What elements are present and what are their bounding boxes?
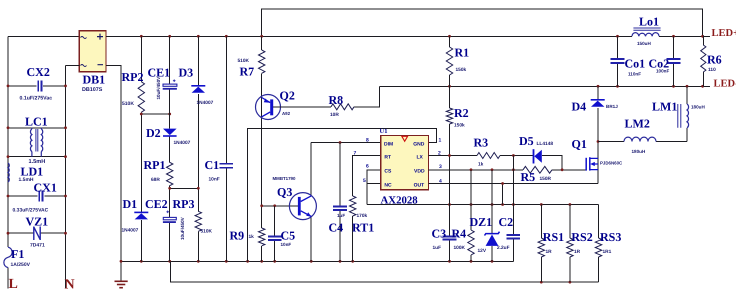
- wire Co2 column: [673, 36, 675, 86]
- resistor RP2: [138, 82, 144, 113]
- svg-text:RP1: RP1: [144, 158, 166, 172]
- wire DZ1 column: [491, 170, 493, 261]
- svg-text:1: 1: [439, 137, 442, 143]
- wire L line (live) from top rail down to L terminal: [7, 36, 9, 288]
- wire CX1 row: [8, 195, 66, 197]
- svg-text:1.5mH: 1.5mH: [19, 177, 34, 183]
- svg-text:Q3: Q3: [277, 185, 292, 199]
- resistor RS2: [567, 238, 573, 257]
- capacitor Co2: [667, 59, 681, 63]
- wire DB1 ac2 to N line: [66, 65, 80, 67]
- svg-text:180uH: 180uH: [691, 104, 705, 109]
- svg-text:180uH: 180uH: [632, 149, 646, 154]
- fuse F1: [4, 247, 12, 268]
- wire link RP2 to CE1 column y114: [141, 113, 169, 115]
- resistor R4: [468, 230, 474, 255]
- svg-text:10nF: 10nF: [209, 177, 220, 183]
- svg-text:170k: 170k: [357, 213, 368, 219]
- wire link RP1 bottom to RP3 column y188: [170, 187, 199, 189]
- junction dots on ground rail2: [540, 281, 571, 284]
- svg-text:R4: R4: [452, 227, 467, 241]
- ground symbol: [115, 281, 128, 287]
- diode D3: [191, 86, 205, 93]
- svg-text:BR1J: BR1J: [606, 104, 618, 109]
- wire ground rail2 y282 with jog: [170, 261, 598, 282]
- svg-text:D2: D2: [146, 126, 161, 140]
- U1 pin1 notch marker: [402, 136, 408, 141]
- wire VZ1 row: [8, 232, 66, 234]
- capacitor CE2 (electrolytic): [163, 211, 176, 223]
- svg-text:R8: R8: [329, 93, 344, 107]
- wire C1 column: [225, 36, 227, 261]
- resistor R9: [259, 228, 265, 246]
- svg-text:2.2uF: 2.2uF: [497, 245, 510, 251]
- svg-text:10R: 10R: [330, 112, 339, 118]
- svg-text:C4: C4: [329, 221, 344, 235]
- svg-text:110: 110: [708, 67, 716, 73]
- wire main DC+ rail y36: [106, 35, 710, 37]
- svg-text:RT1: RT1: [352, 221, 374, 235]
- svg-text:CX1: CX1: [34, 181, 57, 195]
- capacitor C5: [268, 236, 282, 240]
- svg-text:OUT: OUT: [414, 182, 425, 188]
- wire DIM row from Q3 collector: [311, 142, 380, 144]
- svg-text:RP3: RP3: [173, 197, 195, 211]
- diode D2: [163, 129, 177, 136]
- svg-text:1R: 1R: [574, 249, 581, 255]
- svg-text:8: 8: [366, 137, 369, 143]
- wire D3-RP3 column: [197, 36, 199, 261]
- junction dots on LX row: [448, 154, 515, 157]
- inductor LD1: [8, 163, 9, 182]
- wire Co1 column: [617, 36, 619, 86]
- svg-text:110nF: 110nF: [628, 71, 641, 76]
- svg-text:VDD: VDD: [414, 169, 425, 175]
- svg-text:D3: D3: [179, 66, 194, 80]
- wire CS/NC bracket to sense rail: [367, 170, 381, 205]
- resistor R7: [259, 50, 265, 73]
- svg-text:LM2: LM2: [625, 117, 650, 131]
- wire sense rail E y204.5: [367, 204, 599, 206]
- svg-text:510K: 510K: [122, 101, 134, 107]
- svg-text:12V: 12V: [478, 248, 487, 254]
- wire RP2-D1 column: [140, 36, 142, 261]
- wire top AC rail into DB1: [8, 35, 79, 37]
- svg-text:CS: CS: [384, 169, 392, 175]
- svg-text:1R1: 1R1: [603, 249, 612, 255]
- svg-text:Lo1: Lo1: [639, 15, 659, 29]
- wire LC1 bottom row: [8, 156, 66, 158]
- svg-text:DIM: DIM: [384, 141, 393, 147]
- svg-text:U1: U1: [380, 128, 388, 135]
- svg-text:RS1: RS1: [543, 230, 564, 244]
- wire D4-Q1 drain-source column: [597, 86, 599, 183]
- wire R7-Q2-R9 column: [261, 36, 263, 261]
- diode D1: [134, 212, 148, 219]
- capacitor CX1 symbol: [39, 190, 42, 201]
- wire VDD row with R5 to Q1 gate: [429, 169, 587, 171]
- svg-text:RP2: RP2: [122, 70, 144, 84]
- wire RS2 column: [569, 205, 571, 283]
- wire U1 GND loop over IC to ground rail: [248, 129, 437, 262]
- svg-text:D1: D1: [123, 197, 138, 211]
- wire RS1 column: [540, 205, 542, 283]
- resistor R5: [523, 166, 552, 173]
- svg-text:Q1: Q1: [572, 137, 587, 151]
- svg-text:10nF: 10nF: [281, 242, 292, 247]
- junction dot OUT jog: [501, 182, 504, 185]
- svg-text:R9: R9: [230, 229, 245, 243]
- svg-text:R3: R3: [474, 136, 489, 150]
- svg-text:LED-: LED-: [714, 78, 736, 89]
- transistor Q3 (NPN MMBT1790): [289, 193, 316, 220]
- wire R6 column: [702, 36, 704, 87]
- svg-text:7: 7: [354, 150, 357, 156]
- capacitor CX2 symbol: [38, 80, 41, 91]
- capacitor CE1 (electrolytic): [163, 79, 177, 88]
- svg-text:R7: R7: [240, 65, 255, 79]
- capacitor Co1: [611, 59, 625, 63]
- svg-text:150R: 150R: [540, 176, 552, 182]
- svg-text:3: 3: [439, 164, 442, 170]
- wire OUT row jog down to sense rail: [502, 184, 504, 205]
- svg-text:10uF/450V: 10uF/450V: [156, 76, 161, 100]
- transistor Q2 (PNP A92): [256, 95, 281, 120]
- resistor R8: [331, 104, 354, 110]
- svg-text:DB107S: DB107S: [82, 87, 103, 93]
- junction dots on LED- rail: [448, 85, 704, 88]
- wire C4 column: [339, 143, 341, 262]
- wire LX row with R3 and D5: [429, 156, 563, 170]
- svg-text:C5: C5: [281, 229, 296, 243]
- svg-text:150k: 150k: [456, 67, 467, 73]
- wire RT row and RT1 column: [353, 156, 381, 262]
- svg-text:1N4007: 1N4007: [174, 140, 191, 146]
- resistor RP1: [167, 162, 173, 185]
- svg-text:C3: C3: [432, 227, 447, 241]
- wire CX2 row: [8, 85, 66, 87]
- junction dots on VDD row: [470, 168, 564, 171]
- svg-text:R6: R6: [707, 53, 722, 67]
- resistor RP3: [195, 211, 201, 231]
- svg-text:1k: 1k: [478, 162, 484, 168]
- wire RS3 column: [598, 205, 600, 283]
- resistor R6: [701, 45, 706, 72]
- resistor RS1: [538, 238, 544, 257]
- U1 pin numbers: [354, 137, 443, 184]
- op-amp U1 AX2028 body: [381, 136, 429, 190]
- wire LC1 top row: [8, 127, 66, 129]
- svg-text:1uF: 1uF: [433, 245, 442, 251]
- svg-text:1A/250V: 1A/250V: [11, 262, 31, 268]
- svg-text:C1: C1: [205, 158, 220, 172]
- svg-text:DZ1: DZ1: [470, 215, 493, 229]
- DB1 ac/dc pin marks: [81, 34, 104, 67]
- svg-text:510K: 510K: [238, 58, 250, 64]
- wire top loop rail y9: [262, 9, 703, 36]
- svg-text:0.33uF/275VAC: 0.33uF/275VAC: [13, 207, 49, 213]
- inductor Lo1: [632, 28, 661, 36]
- svg-text:1N4007: 1N4007: [122, 228, 139, 234]
- inductor LM2: [624, 137, 656, 141]
- junction dots Q3 base row: [260, 204, 276, 207]
- svg-text:PJD6N60C: PJD6N60C: [600, 160, 623, 165]
- svg-text:1uF: 1uF: [337, 213, 345, 218]
- svg-text:68R: 68R: [151, 177, 160, 183]
- wire ground rail1 y261: [121, 260, 513, 262]
- svg-text:F1: F1: [11, 247, 24, 261]
- svg-text:100K: 100K: [454, 245, 466, 251]
- wire Q2 base to R8 to LED- rail: [273, 86, 380, 107]
- svg-text:LM1: LM1: [652, 100, 677, 114]
- junction dots on L/N ladder: [7, 85, 67, 235]
- svg-text:R5: R5: [521, 170, 536, 184]
- wire CE1-D2-RP1-CE2 column: [169, 36, 171, 261]
- resistor R1: [446, 47, 452, 75]
- svg-text:N: N: [65, 278, 75, 293]
- svg-text:510K: 510K: [201, 229, 213, 235]
- resistor R2: [446, 108, 452, 124]
- svg-text:VZ1: VZ1: [26, 214, 49, 228]
- capacitor C2: [507, 235, 521, 239]
- wire C5 column: [274, 206, 276, 261]
- svg-text:LX: LX: [417, 154, 424, 160]
- svg-text:R1: R1: [455, 46, 470, 60]
- svg-text:LC1: LC1: [25, 115, 48, 129]
- capacitor C3: [443, 236, 457, 239]
- svg-text:RS3: RS3: [600, 230, 621, 244]
- wire C2 column: [512, 156, 514, 262]
- zener diode DZ1 (12V): [485, 232, 500, 246]
- svg-text:7D471: 7D471: [30, 242, 45, 248]
- svg-text:NC: NC: [384, 182, 392, 188]
- wire LED- / mid rail y86: [380, 85, 710, 87]
- svg-text:RT: RT: [384, 154, 391, 160]
- svg-text:Q2: Q2: [280, 89, 295, 103]
- transistor Q1 (MOSFET PJD6N60C): [586, 157, 598, 170]
- capacitor C4: [333, 207, 347, 211]
- svg-text:L: L: [9, 277, 18, 292]
- inductor LC1 (common-mode choke): [30, 128, 42, 157]
- svg-text:DB1: DB1: [83, 73, 106, 87]
- wire LM1 column: [686, 86, 688, 141]
- wire Q3 collector/emitter column: [310, 143, 312, 262]
- svg-text:LED+: LED+: [712, 28, 736, 39]
- svg-text:150uH: 150uH: [637, 41, 651, 46]
- svg-text:CX2: CX2: [27, 65, 50, 79]
- svg-text:6: 6: [366, 164, 369, 170]
- resistor R3: [477, 153, 500, 159]
- junction dots on ground rail1: [120, 260, 494, 263]
- svg-text:1N4007: 1N4007: [197, 100, 214, 106]
- wire R1-R2-C3 column: [449, 36, 451, 261]
- svg-text:150k: 150k: [454, 123, 465, 129]
- junction dots link y188: [168, 187, 199, 190]
- svg-text:D4: D4: [572, 100, 587, 114]
- junction dot DIM-C4: [339, 141, 342, 144]
- svg-text:Co1: Co1: [625, 57, 646, 71]
- svg-text:C2: C2: [499, 215, 514, 229]
- svg-text:RS2: RS2: [571, 230, 592, 244]
- svg-text:LL4148: LL4148: [537, 141, 554, 147]
- svg-text:CE2: CE2: [145, 197, 168, 211]
- junction dot Q1 drain / LM2 row: [597, 140, 600, 143]
- svg-text:5: 5: [363, 178, 366, 184]
- capacitor C1: [220, 164, 234, 168]
- svg-text:1R: 1R: [546, 249, 553, 255]
- svg-text:100nF: 100nF: [656, 69, 669, 74]
- wire DB1 minus output to ground rail: [106, 66, 121, 281]
- svg-text:0.1uF/275Vac: 0.1uF/275Vac: [20, 96, 53, 102]
- diode D5 (LL4148, pointing left): [534, 149, 542, 163]
- svg-text:MMBT1790: MMBT1790: [273, 176, 296, 181]
- varistor VZ1 symbol: [34, 227, 40, 241]
- wire R4 column: [470, 170, 472, 261]
- resistor RT1: [350, 196, 356, 216]
- svg-text:A92: A92: [282, 111, 291, 116]
- diode D4: [591, 100, 605, 107]
- svg-text:AX2028: AX2028: [381, 194, 419, 206]
- wire OUT row to Q1 source: [429, 183, 599, 185]
- svg-text:1k: 1k: [249, 234, 255, 240]
- svg-text:D5: D5: [519, 134, 534, 148]
- junction dots link y114: [140, 113, 171, 116]
- inductor LM1: [678, 104, 689, 128]
- resistor RS3: [595, 238, 601, 257]
- wire Q3 base row: [262, 205, 298, 207]
- junction dots on sense rail E: [448, 203, 571, 206]
- svg-text:R2: R2: [454, 106, 469, 120]
- wire LM2 row: [598, 141, 687, 143]
- bridge rectifier DB1 body: [79, 31, 106, 72]
- U1 pin names: [384, 141, 425, 188]
- junction dots on DC+ rail: [140, 35, 704, 38]
- wire N line (neutral) from DB1 to N terminal: [65, 66, 67, 289]
- svg-text:GND: GND: [413, 141, 425, 147]
- svg-text:10uF/450V: 10uF/450V: [180, 216, 185, 240]
